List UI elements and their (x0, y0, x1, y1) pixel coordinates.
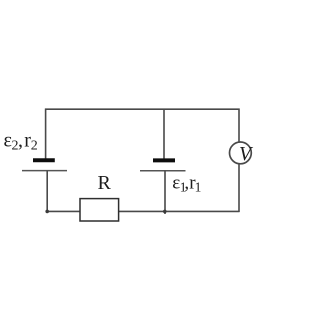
wire middle upper vertical (163, 109, 165, 161)
node junction bottom-middle (163, 210, 167, 214)
node junction bottom-left (45, 210, 49, 214)
battery E1 thin plate (140, 170, 186, 172)
wire bottom horizontal (47, 210, 240, 212)
svg-text:ε2,r2: ε2,r2 (4, 130, 38, 154)
battery E1 thick plate (153, 158, 175, 162)
svg-text:R: R (98, 172, 112, 194)
svg-text:ε1,r1: ε1,r1 (172, 173, 201, 195)
voltmeter V body (230, 142, 252, 164)
wire left upper vertical (45, 109, 47, 161)
battery E2 thin plate (22, 170, 67, 172)
wire left lower vertical (46, 171, 48, 212)
resistor R box (80, 199, 119, 221)
wire middle lower vertical (164, 171, 166, 214)
battery E2 thick plate (positive terminal bar) (33, 158, 55, 162)
wire right upper vertical (238, 109, 240, 143)
wire right lower vertical (238, 164, 240, 212)
wire top horizontal (45, 108, 240, 110)
